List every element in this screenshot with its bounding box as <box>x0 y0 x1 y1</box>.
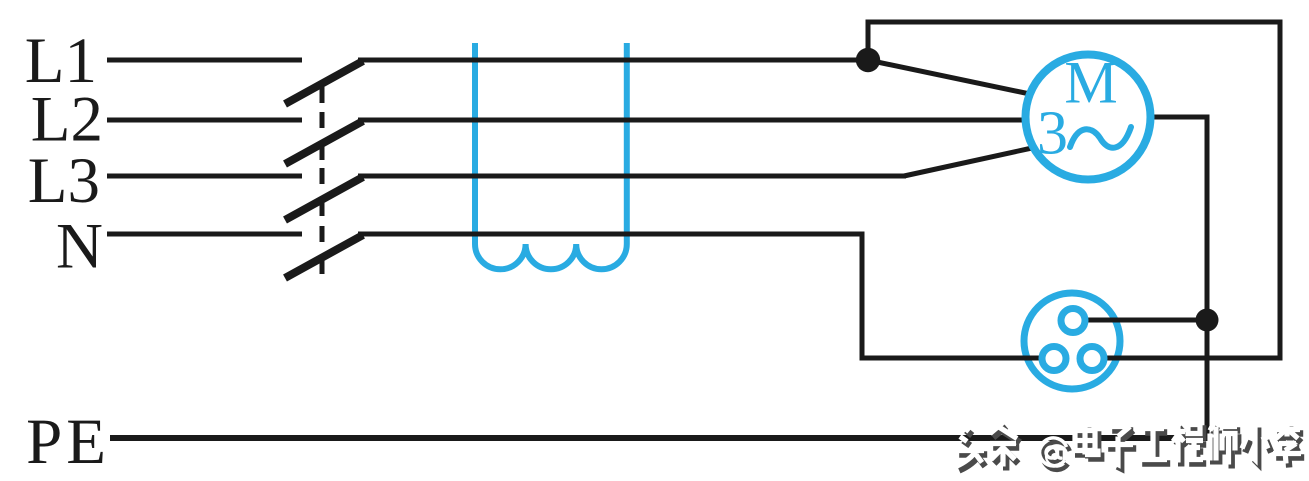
switch QS gang link dash 2b <box>320 146 325 160</box>
junction node B (earth tap) <box>1196 309 1219 332</box>
wire socket earth pin to junction <box>1088 318 1208 323</box>
watermark glyph gong 工 <box>1139 429 1170 464</box>
wire top run <box>866 20 1283 25</box>
watermark glyph li 李 <box>1273 423 1304 468</box>
switch QS gang link dash 4a <box>320 226 325 242</box>
socket X1 earth pin <box>1061 309 1085 333</box>
watermark glyph xiao 小 <box>1242 424 1271 464</box>
switch QS gang link dash 4b <box>320 260 325 274</box>
wire N left segment <box>107 232 302 237</box>
wire L3 slant to motor <box>904 148 1032 176</box>
switch QS gang link dash 3a <box>320 168 325 184</box>
wire L1 slant to motor <box>870 61 1030 95</box>
wire right drop <box>1278 20 1283 361</box>
motor M1 tilde <box>1070 127 1131 148</box>
watermark glyph cheng 程 <box>1172 424 1206 467</box>
watermark glyph dian 电 <box>1075 424 1101 459</box>
wire L1 right segment to junction <box>358 58 868 63</box>
svg-text:L3: L3 <box>28 145 100 217</box>
svg-text:3: 3 <box>1037 100 1068 168</box>
switch QS gang link dash 2a <box>320 112 325 128</box>
watermark glyph tiao 条 <box>990 423 1020 471</box>
watermark glyph @ <box>1039 438 1069 470</box>
wire L1 left segment <box>107 58 302 63</box>
switch QS gang link dash 1 <box>320 87 325 103</box>
RCD current transformer T1 (blue) <box>475 43 627 269</box>
switch QS pole 4 blade <box>285 235 363 278</box>
switch QS pole 3 blade <box>285 177 363 220</box>
wire junction riser <box>866 20 871 63</box>
wire L2 left segment <box>107 118 302 123</box>
switch QS pole 1 blade <box>285 61 363 104</box>
motor M1 circle (blue) <box>1026 55 1151 180</box>
junction node A (L1 tap) <box>856 48 880 72</box>
wire motor earth lead <box>1150 115 1210 120</box>
wire PE <box>110 435 1210 441</box>
wire N drop vertical <box>860 232 865 361</box>
wire L2 right segment to motor <box>358 118 1030 123</box>
wire L3 left segment <box>107 174 302 179</box>
switch QS pole 2 blade <box>285 121 363 164</box>
wire L3 right segment <box>358 174 906 179</box>
socket X1 left pin <box>1042 347 1066 371</box>
wire right to socket right pin <box>1107 356 1281 361</box>
watermark glyph shi 师 <box>1210 423 1240 469</box>
watermark glyph zi 子 <box>1105 427 1136 469</box>
wire N to socket left pin <box>862 356 1040 361</box>
socket X1 outer circle (blue) <box>1024 293 1120 389</box>
socket X1 right pin <box>1080 347 1104 371</box>
wire earth drop <box>1205 115 1210 439</box>
svg-text:PE: PE <box>26 406 110 478</box>
svg-text:N: N <box>56 211 103 283</box>
switch QS gang link dash 3b <box>320 202 325 216</box>
watermark glyph tou 头 <box>956 427 987 471</box>
svg-text:M: M <box>1064 50 1117 116</box>
wire N right segment <box>358 232 865 237</box>
